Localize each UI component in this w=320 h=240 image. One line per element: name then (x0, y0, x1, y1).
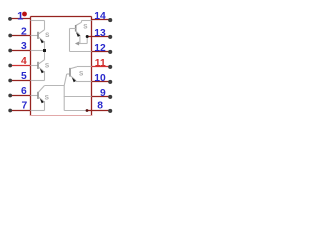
svg-text:14: 14 (94, 11, 106, 22)
svg-text:7: 7 (21, 100, 27, 111)
transistor Q3 emitter vertical (44, 101, 46, 111)
transistor Q2 collector diagonal (38, 60, 44, 64)
substrate wire horizontal (79, 43, 88, 45)
transistor Q2 emitter vertical to pin 5 wire (44, 71, 46, 81)
svg-text:12: 12 (94, 43, 106, 54)
transistor Q5 emitter diagonal (70, 76, 75, 80)
pin 5 wire (10, 80, 31, 82)
IC body U1 right edge (91, 17, 93, 116)
svg-text:S: S (45, 63, 50, 70)
transistor Q3 base bar (37, 92, 39, 99)
pin 12 terminal (108, 50, 112, 54)
transistor Q2 emitter diagonal (38, 67, 43, 71)
wire pin 5 internal (31, 80, 45, 82)
pin 4 terminal (8, 64, 12, 68)
junction node A (pin 3 / Q1 emitter / Q2 collector) (43, 49, 46, 52)
transistor Q1 base bar (37, 32, 39, 39)
substrate wire vertical from node B (86, 37, 88, 44)
svg-text:S: S (83, 24, 88, 31)
transistor Q4 base wire (70, 28, 76, 30)
svg-text:S: S (79, 71, 84, 78)
transistor Q5 collector diagonal (70, 67, 76, 69)
pin 3 wire (10, 50, 31, 52)
svg-text:2: 2 (21, 26, 27, 37)
substrate arrow head (75, 42, 79, 46)
pin 1 marker dot (22, 12, 27, 17)
transistor Q2 base bar (37, 62, 39, 69)
transistor Q5 base bar (69, 68, 71, 77)
pin 1 wire (10, 18, 31, 20)
pin 10 terminal (108, 80, 112, 84)
pin 4 wire (highlighted) (10, 65, 31, 67)
IC body U1 left edge (30, 17, 32, 116)
transistor Q3 emitter diagonal (38, 97, 43, 101)
transistor Q1 base wire (31, 35, 39, 37)
transistor Q4 collector wire to pin 14 (82, 20, 92, 22)
transistor Q5 emitter vertical (75, 81, 77, 82)
transistor Q3 collector diagonal (38, 86, 44, 93)
transistor Q5 base wire (67, 73, 70, 75)
wire bottom bus to pin 8 (64, 110, 87, 112)
pin 14 wire (92, 19, 111, 21)
svg-text:4: 4 (21, 56, 27, 67)
transistor Q1 collector diagonal (38, 30, 44, 34)
svg-text:6: 6 (21, 86, 27, 97)
transistor Q4 emitter vertical (79, 35, 81, 44)
transistor Q1 collector wire to pin 1 (31, 20, 45, 22)
pin 13 terminal (108, 35, 112, 39)
svg-text:3: 3 (21, 41, 27, 52)
pin 7 terminal (8, 109, 12, 113)
pin 10 wire (92, 81, 111, 83)
svg-text:8: 8 (97, 100, 103, 111)
junction node C (pin 8 wire / bottom bus) (86, 109, 89, 112)
wire Q5 collector to pin 11 (77, 66, 92, 68)
wire pin 7 internal (31, 110, 45, 112)
junction node B (pin 13 / substrate wire) (86, 35, 89, 38)
pin 5 terminal (8, 79, 12, 83)
wire Q5 base bus upper jog (64, 74, 67, 86)
transistor Q2 emitter arrow (40, 69, 44, 74)
pin 3 terminal (8, 49, 12, 53)
pin 13 wire (87, 36, 110, 38)
transistor Q2 collector vertical from node A (44, 51, 46, 60)
transistor Q1 emitter vertical to node A (44, 41, 46, 51)
svg-text:11: 11 (95, 58, 106, 69)
pin 2 terminal (8, 34, 12, 38)
pin 7 wire (10, 110, 31, 112)
pin 6 terminal (8, 94, 12, 98)
svg-text:S: S (45, 32, 50, 39)
svg-text:13: 13 (94, 28, 106, 39)
transistor Q4 collector diagonal (76, 22, 82, 25)
transistor Q1 emitter arrow (40, 39, 44, 44)
transistor Q2 base wire (31, 65, 39, 67)
pin 8 wire (87, 110, 110, 112)
pin 11 wire (highlighted) (92, 66, 111, 68)
wire pin 3 to node A (31, 50, 45, 52)
transistor Q3 collector wire to right bus (44, 85, 64, 87)
pin 2 wire (10, 35, 31, 37)
transistor Q5 emitter arrow (72, 78, 76, 83)
wire Q5 base bus vertical (63, 86, 65, 111)
svg-text:1: 1 (17, 11, 23, 23)
svg-text:9: 9 (100, 88, 106, 99)
svg-text:5: 5 (21, 71, 27, 82)
transistor Q3 base wire (31, 95, 39, 97)
pin 12 wire (92, 51, 111, 53)
IC body U1 top edge (31, 16, 92, 18)
pin 11 terminal (108, 65, 112, 69)
wire Q5 emitter to pin 10 (76, 81, 92, 83)
svg-text:S: S (45, 95, 50, 102)
transistor Q4 emitter arrow (76, 32, 80, 37)
pin 6 wire (10, 95, 31, 97)
wire pin 12 internal (70, 51, 92, 53)
transistor Q1 collector vertical (44, 21, 46, 30)
IC body U1 bottom edge (30, 115, 92, 117)
pin 1 terminal (8, 17, 12, 21)
pin 8 terminal (108, 109, 112, 113)
pin 9 wire (92, 96, 111, 98)
transistor Q4 base bar (75, 25, 77, 32)
pin 14 terminal (108, 18, 112, 22)
transistor Q1 emitter diagonal (38, 37, 43, 41)
wire Q4 base to pin 12 (vertical) (69, 29, 71, 52)
transistor Q4 emitter diagonal (76, 31, 80, 34)
transistor Q3 emitter arrow (40, 99, 44, 104)
wire pin 9 internal (64, 96, 92, 98)
transistor Q4 collector vertical (81, 21, 83, 23)
svg-text:10: 10 (94, 73, 106, 84)
pin 9 terminal (108, 95, 112, 99)
